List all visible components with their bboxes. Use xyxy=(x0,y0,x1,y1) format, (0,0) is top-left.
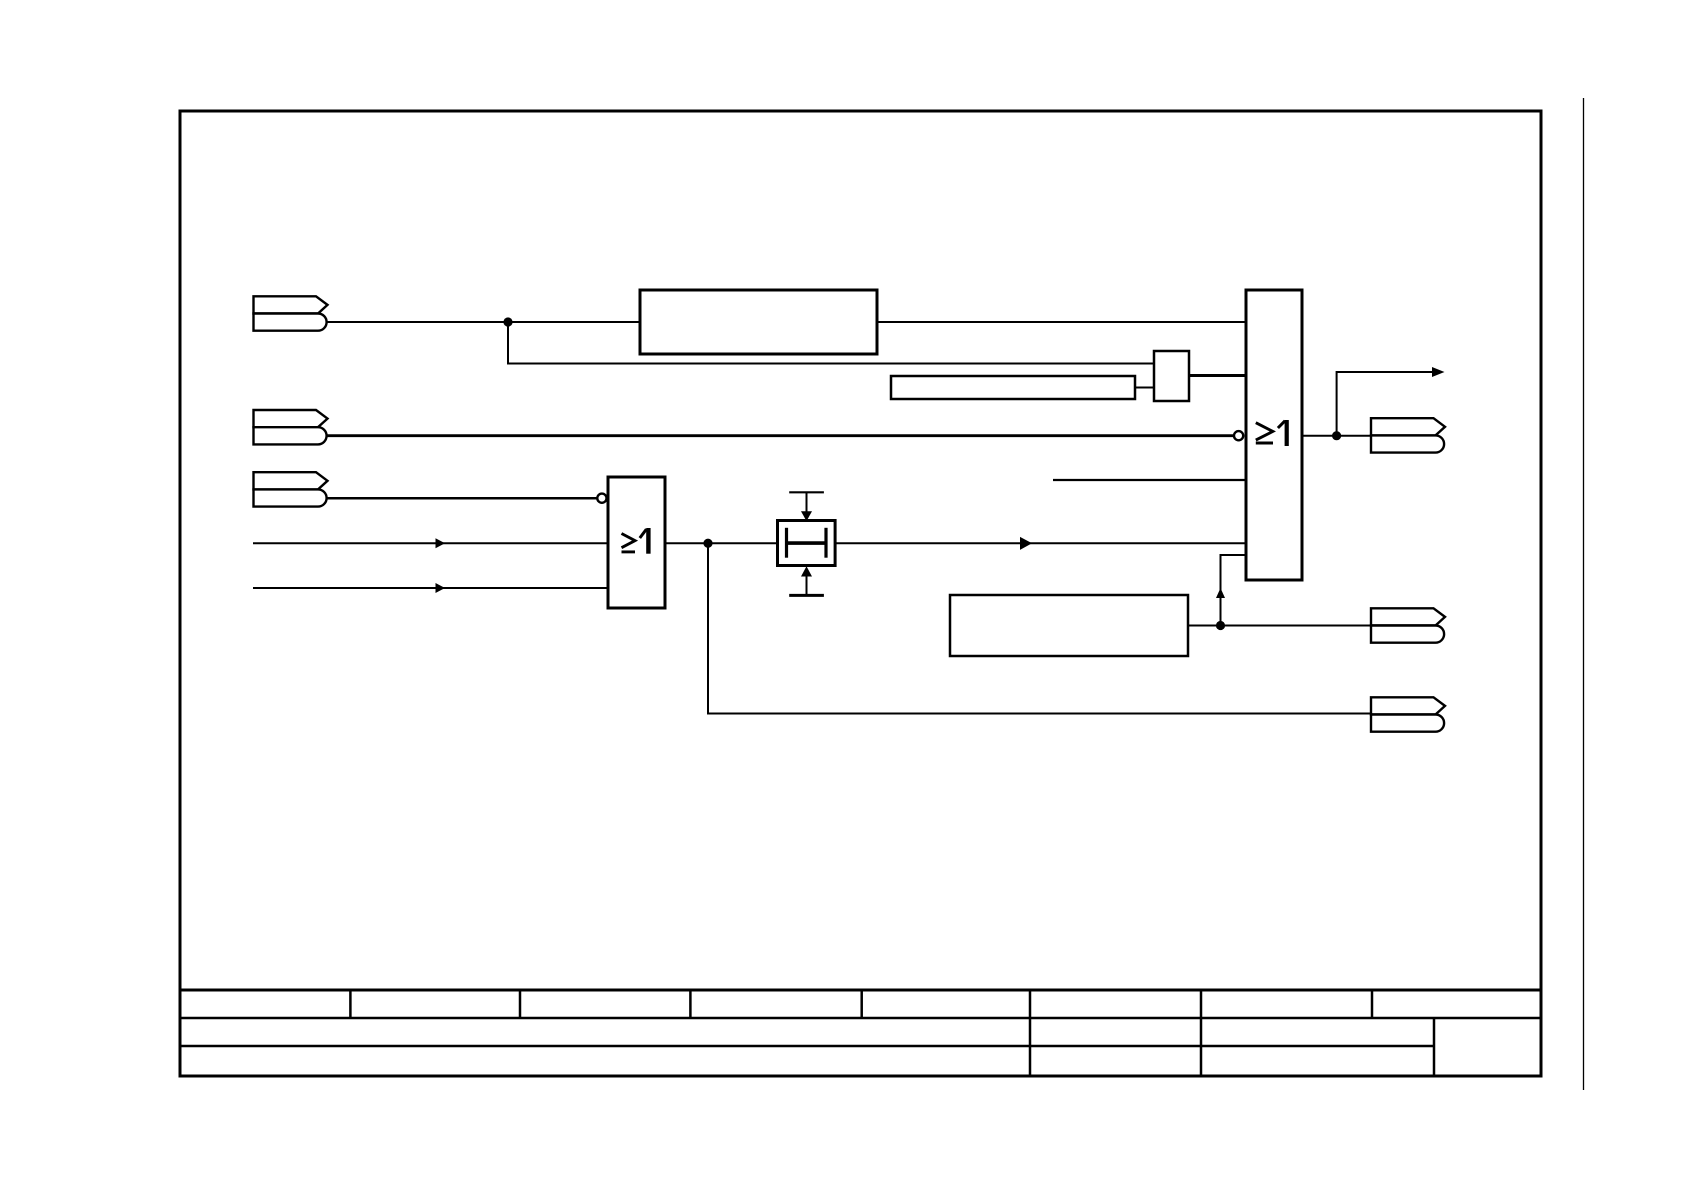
wire: branch from node N1 down and right to box D xyxy=(508,322,1154,364)
input connector IN1 xyxy=(254,296,328,330)
title block xyxy=(180,990,1541,1076)
upper limit indicator xyxy=(789,491,824,493)
output connector OUT3 xyxy=(1371,697,1445,731)
wire: box D to OR gate U2 xyxy=(1189,374,1246,377)
box D xyxy=(1154,351,1189,401)
output connector OUT2 xyxy=(1371,608,1445,642)
node N4 xyxy=(1332,431,1341,440)
input connector IN3 xyxy=(254,472,328,506)
wire: branch from node N2 down to output connector OUT3 xyxy=(708,543,1371,713)
OR gate U1 xyxy=(597,477,665,608)
box A xyxy=(640,290,877,354)
wire: input 3 to inverting input of OR gate U1 xyxy=(327,497,598,500)
node N1 xyxy=(503,317,512,326)
page edge mark xyxy=(1583,98,1585,1090)
drawing frame xyxy=(180,111,1541,1076)
box B xyxy=(950,595,1188,656)
wire: OR gate U1 output to limiter xyxy=(665,542,777,544)
wire: input 1 run to OR gate U2 xyxy=(327,321,1246,323)
box C xyxy=(891,376,1135,399)
arrow on input line 4 xyxy=(436,538,446,548)
wire: box C to box D xyxy=(1135,387,1154,389)
label ">=1" of U1 xyxy=(622,529,647,552)
arrow on input line 5 xyxy=(436,583,446,593)
wire: input line 4 into OR gate U1 xyxy=(253,542,608,544)
label ">=1" of U2 xyxy=(1256,421,1285,443)
node N3 xyxy=(1216,621,1225,630)
node N2 xyxy=(703,539,712,548)
wire: OR gate U2 output to output connector OUT1 xyxy=(1302,435,1371,437)
input connector IN2 xyxy=(254,410,328,444)
arrow on branch to OR gate U2 xyxy=(1216,588,1225,598)
limiter xyxy=(778,492,836,595)
wire: box B output to output connector OUT2 xyxy=(1188,625,1371,627)
wire: branch from node N4 up and right with arrow xyxy=(1337,372,1432,436)
arrow on limiter output wire xyxy=(1020,537,1032,550)
wire: limiter output to OR gate U2 xyxy=(836,542,1246,544)
wire: stub input to OR gate U2 xyxy=(1053,479,1246,481)
OR gate U2 xyxy=(1234,290,1302,580)
arrow head top right xyxy=(1432,367,1445,377)
output connector OUT1 xyxy=(1371,418,1445,452)
lower limit indicator xyxy=(789,594,824,597)
wire: branch from node N3 up into OR gate U2 xyxy=(1221,555,1247,626)
wire: input 2 to inverting input of OR gate U2 xyxy=(327,434,1234,437)
wire: input line 5 into OR gate U1 xyxy=(253,587,608,589)
